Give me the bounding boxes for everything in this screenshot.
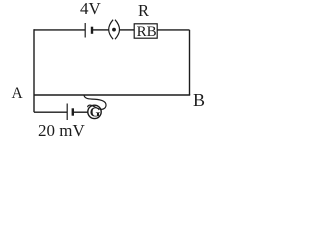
wire: right vertical (B side) bbox=[189, 30, 191, 95]
svg-text:4V: 4V bbox=[80, 0, 102, 18]
wire: potentiometer wire A-B bbox=[34, 94, 190, 96]
galvanometer G body bbox=[88, 105, 101, 120]
jockey curl wire from potentiometer wire to galvanometer bbox=[84, 95, 106, 109]
plug key K contact dot bbox=[112, 28, 116, 32]
wire: resistance box to top-right corner bbox=[157, 29, 189, 31]
svg-text:A: A bbox=[12, 85, 24, 102]
svg-text:R: R bbox=[138, 1, 149, 20]
battery B2 long plate (+) bbox=[66, 104, 68, 121]
wire: battery to plug key bbox=[93, 29, 109, 31]
resistance box RB bbox=[134, 24, 157, 40]
svg-text:20 mV: 20 mV bbox=[38, 121, 85, 140]
svg-text:RB: RB bbox=[137, 24, 157, 40]
wire: left vertical (A side) bbox=[33, 29, 35, 112]
battery B1 long plate (+) bbox=[84, 23, 86, 38]
battery B2 short plate (-) bbox=[72, 108, 74, 115]
wire: top lead from left corner to 4V battery bbox=[34, 29, 85, 31]
wire: battery to galvanometer bbox=[74, 111, 88, 113]
wire: plug key to resistance box bbox=[120, 29, 134, 31]
plug key K right arc bbox=[115, 20, 120, 40]
battery B1 short plate (-) bbox=[91, 27, 93, 34]
plug key K left arc bbox=[109, 20, 113, 40]
wire: bottom lead from A vertical to 20mV battery bbox=[34, 111, 67, 113]
svg-text:B: B bbox=[193, 90, 205, 110]
